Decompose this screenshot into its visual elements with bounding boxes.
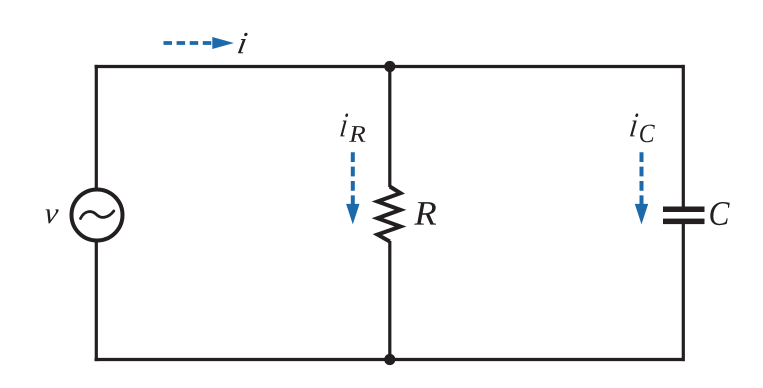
- label iR: resistor current: [340, 113, 348, 136]
- arrow iC: arrowhead: [635, 204, 648, 225]
- wire: left branch upper segment: [95, 65, 98, 191]
- label C: capacitor value: [710, 202, 729, 225]
- arrow i: dashed shaft: [164, 41, 212, 45]
- label iC: capacitor current: [630, 113, 638, 136]
- wire: top horizontal: [95, 65, 685, 68]
- arrow iR: arrowhead: [346, 204, 359, 225]
- wire: right branch lower segment: [682, 224, 685, 361]
- wire: middle branch lower segment: [388, 241, 391, 361]
- wire: right branch upper segment: [682, 65, 685, 207]
- label R: resistor value: [414, 202, 436, 225]
- arrow i: arrowhead: [212, 37, 234, 49]
- wire: middle branch upper segment: [388, 65, 391, 187]
- source U1: AC voltage source circle: [72, 190, 123, 241]
- capacitor C: top plate: [663, 207, 705, 213]
- arrow iR: dashed shaft: [351, 152, 355, 204]
- wire: left branch lower segment: [95, 239, 98, 361]
- source U1: sine tilde symbol: [81, 211, 114, 219]
- label i: total current: [238, 33, 248, 53]
- node: bottom junction dot: [384, 354, 395, 365]
- arrow iC: dashed shaft: [640, 152, 644, 204]
- wire: bottom horizontal: [95, 358, 685, 361]
- label v: source voltage: [45, 209, 58, 223]
- capacitor C: bottom plate: [663, 219, 705, 225]
- resistor R: zigzag: [378, 187, 401, 242]
- node: top junction dot: [384, 61, 395, 72]
